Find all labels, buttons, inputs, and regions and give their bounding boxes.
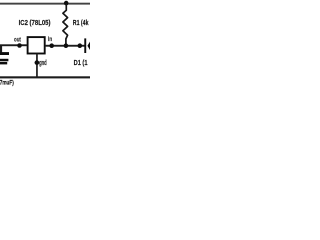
svg-text:IC2 (78L05): IC2 (78L05) [19,20,51,27]
svg-text:gnd: gnd [39,60,47,67]
node: junction input wire [49,43,54,48]
diode D1 cathode bar [84,38,86,53]
op-amp U1 : IC2 regulator body (78L05) [28,37,45,53]
node: gnd junction dot [35,60,40,65]
node: junction of R1 with top rail [64,1,69,6]
resistor R1 [63,4,68,46]
node: junction at D1 [78,43,83,48]
svg-text:out: out [14,36,21,43]
diode D1 triangle [87,41,90,51]
wire: top supply rail [0,3,90,5]
wire: input wire right of IC2 [45,45,85,47]
svg-text:in: in [48,36,52,43]
capacitor C bottom plate second line [0,62,7,64]
capacitor C bottom plate [0,59,8,62]
wire: output wire left of IC2 [0,44,27,46]
node: junction on output wire [17,43,22,48]
wire: IC2 gnd pin down [36,54,38,77]
node: junction R1 bottom [64,43,69,48]
svg-text:D1 (1: D1 (1 [74,60,88,67]
wire: bottom ground rail [0,76,90,78]
capacitor C top plate [0,52,9,55]
capacitor C lead [0,45,2,53]
svg-text:7muF): 7muF) [0,79,14,86]
svg-text:R1 (4k: R1 (4k [73,20,89,27]
